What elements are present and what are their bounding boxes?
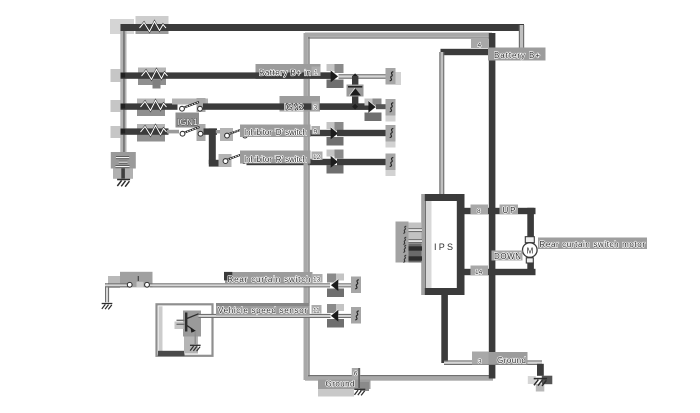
continuation mark IPS pin 2 <box>403 237 406 244</box>
svg-text:DOWN: DOWN <box>494 252 521 261</box>
svg-text:11: 11 <box>313 308 320 315</box>
connector arrow vss pads <box>327 304 344 328</box>
svg-text:M: M <box>527 247 534 256</box>
pin 4 box <box>471 39 489 49</box>
ground G3 (bottom middle) <box>354 389 365 395</box>
vehicle speed sensor transistor pads <box>175 311 202 354</box>
pad at bus line3 junction <box>111 100 121 112</box>
pin 11 box <box>312 305 322 315</box>
svg-text:1: 1 <box>314 70 318 77</box>
ground G5 (inside sensor) <box>190 345 201 351</box>
label: Ground (right) <box>489 352 528 365</box>
module box left edge <box>304 33 310 380</box>
fuse F3 pads <box>137 99 165 117</box>
ignition switch IGN1 pole B (line 4) <box>180 127 203 136</box>
continuation mark rcs <box>351 277 361 294</box>
wire: IPS left pin 1 thin <box>409 228 423 232</box>
continuation mark line3 <box>386 99 396 122</box>
wire: motor loop right vertical upper <box>527 208 534 238</box>
wire: vertical link line2 to line3 <box>352 76 358 107</box>
fuse F1 <box>140 22 167 32</box>
junction dot line2/vert <box>352 73 358 79</box>
wire: motor loop bottom horizontal <box>464 269 536 275</box>
label: IGN2 background <box>280 96 321 112</box>
svg-text:13: 13 <box>313 277 321 284</box>
wire: motor loop right vertical lower <box>527 263 534 276</box>
label DOWN <box>492 251 523 261</box>
continuation mark line2 <box>386 68 402 85</box>
label: Rear curtain switch <box>224 272 313 284</box>
svg-text:4: 4 <box>478 42 482 49</box>
fuse F2 pads <box>138 68 166 89</box>
junction on bus line4 <box>121 129 126 134</box>
wire: main battery bus vertical (left) <box>120 24 126 158</box>
inhibitor D switch pads <box>220 128 233 141</box>
wire: right ground horizontal thin <box>444 360 542 365</box>
wire: line 4 after IGN1 switch <box>204 128 218 134</box>
pin 14 box <box>471 266 489 277</box>
connector arrow vss (left pointing) <box>331 309 339 321</box>
wire: line 4 label segment to arrow <box>248 130 332 136</box>
connector arrow rcs pads <box>327 274 344 298</box>
junction on bus line2 <box>121 73 126 78</box>
svg-text:3: 3 <box>314 105 318 112</box>
vehicle speed sensor box <box>157 304 213 356</box>
wire: IPS left pin 2 thin <box>409 239 423 243</box>
junction dot line3/vert <box>352 104 358 110</box>
svg-text:Inhibitor ‘D’ switch: Inhibitor ‘D’ switch <box>244 128 307 137</box>
svg-text:Battery B+ in: Battery B+ in <box>259 69 311 78</box>
svg-text:8: 8 <box>477 208 481 215</box>
ground G4 (rear curtain switch) <box>102 304 113 310</box>
pin 9 box <box>312 126 321 136</box>
pad at bus line2 junction <box>111 69 121 82</box>
battery BAT pads <box>111 152 136 179</box>
wire: rear curtain switch line thin <box>150 283 330 287</box>
battery BAT plates <box>116 157 130 168</box>
svg-text:Ground: Ground <box>326 380 355 389</box>
svg-text:14: 14 <box>475 269 483 276</box>
wire: grey vertical to IPS top <box>439 52 444 195</box>
rear curtain switch pads <box>108 272 153 288</box>
fuse F4 <box>141 126 167 136</box>
svg-text:Battery B+: Battery B+ <box>494 51 540 60</box>
pad at bus top corner <box>110 19 134 34</box>
pin 1 box <box>312 67 321 77</box>
wire: motor loop top horizontal <box>464 208 536 214</box>
label: Battery B+ <box>488 48 546 61</box>
wire: line 2 battery B+ horizontal <box>121 72 332 78</box>
pin 12 box <box>312 152 323 162</box>
svg-text:Ground: Ground <box>497 356 526 365</box>
pin 3 box (ground) <box>472 352 489 366</box>
wire: line 4 thin link to inhibitor D <box>216 130 225 133</box>
wire: right ground stub down <box>537 364 544 376</box>
label: Rear curtain switch motor <box>538 238 647 250</box>
inhibitor R switch pads <box>219 154 232 167</box>
inhibitor R switch <box>223 154 246 163</box>
IPS left pin pads <box>396 222 422 263</box>
svg-text:12: 12 <box>313 154 321 161</box>
connector arrow line 5 <box>331 156 339 168</box>
svg-text:6: 6 <box>354 371 358 378</box>
connector arrow line 4 pads <box>327 122 344 146</box>
wire: line3 over label <box>280 103 369 109</box>
label: Vehicle speed sensor <box>216 303 310 316</box>
fuse F4 pads <box>137 124 165 142</box>
label: Inhibitor R switch background <box>240 151 311 164</box>
svg-text:Inhibitor ‘R’ switch: Inhibitor ‘R’ switch <box>244 155 307 164</box>
pad at bus line4 junction <box>111 126 121 138</box>
pin 3 box <box>312 102 320 112</box>
pin 8 box <box>471 205 489 216</box>
wire: battery to ground stub <box>121 168 125 178</box>
ignition switch IGN1 pads <box>172 98 208 141</box>
svg-text:Rear curtain switch motor: Rear curtain switch motor <box>540 240 646 249</box>
pin 6 box (bottom ground) <box>352 368 361 378</box>
svg-text:Vehicle speed sensor: Vehicle speed sensor <box>218 306 307 315</box>
wire: line 4 fuse to switch thin <box>167 130 179 134</box>
wire: IPS bottom pin dark vertical <box>441 293 448 363</box>
fuse F1 pads <box>136 16 169 34</box>
wire: IPS left pin 4 dark <box>409 256 423 260</box>
junction on bus line3 <box>121 104 126 109</box>
inhibitor D switch <box>225 129 248 138</box>
continuation mark line4 <box>386 125 396 148</box>
connector arrow line 2 <box>331 70 339 82</box>
label: Ground (bottom) background <box>318 380 371 397</box>
continuation mark vss <box>351 307 361 324</box>
wire: Battery B+ feed horizontal <box>441 49 525 55</box>
rear curtain switch contacts <box>127 276 149 287</box>
wire: vss thin after arrow <box>338 314 354 318</box>
motor M1 <box>523 237 538 263</box>
fuse F2 <box>142 70 168 80</box>
connector arrow line 3 pads <box>365 99 382 122</box>
wire: main dark vertical (module right) <box>489 33 496 379</box>
wire: grey vertical right top (line1 corner down) <box>519 25 524 53</box>
vehicle speed sensor transistor Q1 <box>177 313 199 345</box>
wire: rear curtain switch left stub + down <box>105 283 131 302</box>
fuse F3 <box>141 101 167 111</box>
wire: line 3 stub after arrow <box>376 104 388 109</box>
wire: line 4 left segment <box>121 128 169 134</box>
connector arrow line 4 <box>331 127 339 139</box>
continuation mark IPS pin 3 <box>403 245 406 252</box>
wire: line 2 over label <box>256 72 331 78</box>
ground G1 below battery <box>117 180 130 187</box>
continuation mark IPS pin 1 <box>403 226 406 233</box>
svg-text:Rear curtain switch: Rear curtain switch <box>228 275 311 284</box>
continuation mark IPS pin 4 <box>403 255 406 262</box>
wire: line 3 IGN2 left segment <box>121 103 178 109</box>
wire: line 5 start horizontal <box>209 160 224 167</box>
svg-text:3: 3 <box>478 359 482 366</box>
wire: bottom ground stub <box>358 368 360 388</box>
right ground pads <box>528 376 553 392</box>
svg-text:9: 9 <box>314 129 318 136</box>
label: Inhibitor D switch background <box>240 125 311 138</box>
label: Battery B+ in background <box>256 64 321 79</box>
wire: line 4 after arrow <box>337 130 386 136</box>
wire: vss line thin <box>199 314 331 318</box>
svg-text:IGN2: IGN2 <box>284 103 304 112</box>
IPS box <box>421 194 464 295</box>
module box top edge <box>305 33 492 39</box>
wire: line 3 after IGN1 switch <box>203 103 369 109</box>
pin 13 box <box>312 274 323 284</box>
ground G2 (right) <box>534 379 547 386</box>
connector arrow line 2 pads <box>327 64 344 88</box>
wire: line 5 after arrow <box>337 159 386 165</box>
wire: line 5 label segment to arrow <box>247 159 332 165</box>
wire: line 1 battery feed horizontal <box>121 24 525 31</box>
ignition switch IGN1 pole A (line 3) <box>180 102 203 111</box>
continuation mark line5 <box>386 154 396 177</box>
wire: rcs thin after arrow <box>338 283 354 287</box>
label UP <box>500 205 519 215</box>
wire: line 4 drop vertical <box>209 128 216 164</box>
connector arrow line 3 <box>368 101 376 113</box>
wire: IPS left pin 3 dark <box>409 246 423 250</box>
svg-text:IGN1: IGN1 <box>177 117 198 127</box>
connector arrow line 5 pads <box>327 150 344 174</box>
module box bottom edge <box>305 375 493 381</box>
connector arrow rcs (left pointing) <box>331 279 339 291</box>
connector arrow up on link <box>347 85 364 97</box>
wire: line 2 thin after arrow <box>339 74 395 79</box>
